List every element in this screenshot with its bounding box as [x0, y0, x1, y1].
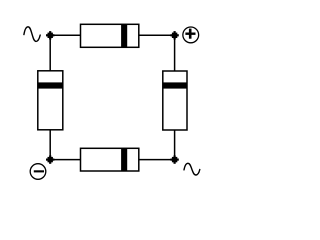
junction node top-right — [170, 31, 178, 39]
diode D3 bottom (horizontal, cathode band right) — [81, 148, 139, 171]
diode D2 right (vertical, cathode band top) — [163, 71, 187, 130]
diode D4 left (vertical, cathode band top) — [38, 71, 63, 130]
junction node bottom-left — [46, 155, 54, 163]
positive output terminal (+) — [183, 27, 199, 43]
diode D1 top (horizontal, cathode band right) — [81, 24, 139, 47]
wire left-lower segment — [49, 130, 51, 160]
wire top-left segment — [50, 34, 81, 36]
AC source sine symbol top-left — [24, 27, 40, 42]
wire right-upper segment — [174, 35, 176, 71]
junction node bottom-right — [170, 155, 178, 163]
wire bottom-left segment — [50, 159, 81, 161]
wire left-upper segment — [49, 35, 51, 71]
wire top-right segment — [139, 34, 175, 36]
wire bottom-right segment — [139, 159, 175, 161]
wire right-lower segment — [174, 130, 176, 160]
negative output terminal (-) — [30, 164, 46, 180]
AC source sine symbol bottom-right — [184, 163, 200, 175]
junction node top-left — [46, 31, 54, 39]
